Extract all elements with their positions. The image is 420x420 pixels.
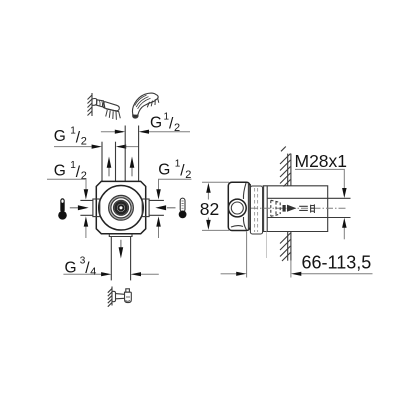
svg-text:M28x1: M28x1	[295, 151, 348, 171]
cartridge spindle block	[283, 205, 286, 212]
right port flange	[142, 199, 149, 217]
wall lower segment	[288, 232, 291, 261]
svg-text:G: G	[54, 163, 66, 180]
wall hatch (spout icon wall)	[108, 287, 112, 307]
label G 1/2 mid-left	[54, 160, 87, 182]
flow arrow up (left pipe)	[107, 157, 112, 177]
arrowhead right pipe left	[115, 130, 125, 134]
wall upper segment	[288, 154, 291, 186]
label G 1/2 top-right	[150, 112, 180, 134]
arrowhead right toward front face	[236, 272, 246, 276]
svg-text:G: G	[158, 161, 170, 178]
top pipe left	[102, 142, 116, 182]
flow arrow into right port	[155, 205, 175, 210]
arrowhead right pipe right	[139, 130, 149, 134]
cartridge cup (dashed)	[271, 200, 280, 216]
end stop bracket	[311, 204, 315, 213]
flange dashed lines	[255, 188, 258, 232]
svg-text:66-113,5: 66-113,5	[302, 252, 372, 272]
right port tube	[149, 200, 164, 215]
bath spout icon	[112, 289, 131, 303]
left port tube	[80, 200, 93, 215]
dimension arrow up at right port bottom	[158, 227, 160, 239]
arrowhead left pipe left	[92, 145, 102, 149]
flow arrow down (bottom pipe)	[119, 240, 124, 259]
side body	[228, 182, 250, 230]
thermometer hot (left, filled)	[58, 198, 67, 219]
cartridge big circle	[99, 186, 144, 231]
82 dimension extension lines	[202, 182, 229, 230]
valve body octagon (front view)	[96, 181, 145, 233]
cartridge rings	[109, 195, 134, 220]
inner tube thread lines	[267, 198, 350, 217]
label G 1/2 top-left	[54, 126, 87, 148]
arrowhead bottom pipe right	[131, 272, 141, 276]
leader mid-left (underline, corner, arrow down)	[47, 179, 86, 190]
mounting flange	[250, 186, 262, 234]
82 arrowheads	[206, 183, 211, 193]
bottom boss	[109, 234, 132, 237]
arrowhead bottom pipe left	[101, 272, 111, 276]
dimension line bottom pipe	[63, 273, 158, 275]
spindle dashes	[299, 206, 308, 210]
side port ring inner	[231, 202, 243, 214]
tube rim lines	[264, 186, 268, 232]
label G 3/4	[65, 256, 97, 279]
flow arrow into left port	[70, 205, 89, 210]
hand shower icon	[132, 93, 158, 118]
bottom pipe	[111, 237, 130, 281]
left port flange	[93, 199, 100, 217]
dimension line left pipe (to top-left label)	[54, 146, 139, 148]
shower head icon	[92, 99, 120, 120]
cartridge spindle cone	[287, 205, 296, 212]
neck lines between body and flange	[248, 184, 250, 230]
arrowhead down at left port top	[84, 189, 89, 199]
tube outer	[263, 186, 328, 232]
faint extension from tube rim	[266, 232, 268, 259]
arrowhead down at right port top	[156, 189, 161, 199]
top pipe right	[125, 126, 138, 182]
dimension line right pipe (to top-right label)	[101, 131, 190, 133]
centerline (dash-dot)	[251, 207, 347, 209]
wall lower hatch	[280, 233, 291, 261]
wall hatch (shower icon wall)	[88, 93, 93, 116]
M28x1 leader underline and corner	[295, 169, 344, 189]
wall upper hatch	[280, 147, 291, 187]
thermometer cold (right, outline)	[179, 198, 187, 218]
svg-text:G: G	[150, 114, 162, 131]
arrowhead left toward wall	[291, 272, 301, 276]
side body contour lines	[231, 183, 247, 230]
wall extension line down	[290, 261, 292, 278]
arrowhead down to thread line	[342, 188, 347, 198]
arrowhead left pipe right	[116, 145, 126, 149]
leader mid-right (underline, corner, arrow down)	[159, 179, 192, 190]
svg-text:2: 2	[81, 136, 87, 148]
svg-text:82: 82	[200, 199, 219, 219]
arrowhead up to lower thread line with tail	[343, 228, 345, 240]
svg-text:G: G	[54, 128, 66, 145]
label G 1/2 mid-right	[158, 159, 191, 181]
dimension arrow up at left port bottom	[85, 227, 87, 239]
side port ring outer	[228, 199, 246, 217]
svg-text:4: 4	[90, 266, 96, 278]
66-113,5 dimension	[221, 232, 373, 278]
flow arrow up (right pipe)	[130, 157, 135, 177]
